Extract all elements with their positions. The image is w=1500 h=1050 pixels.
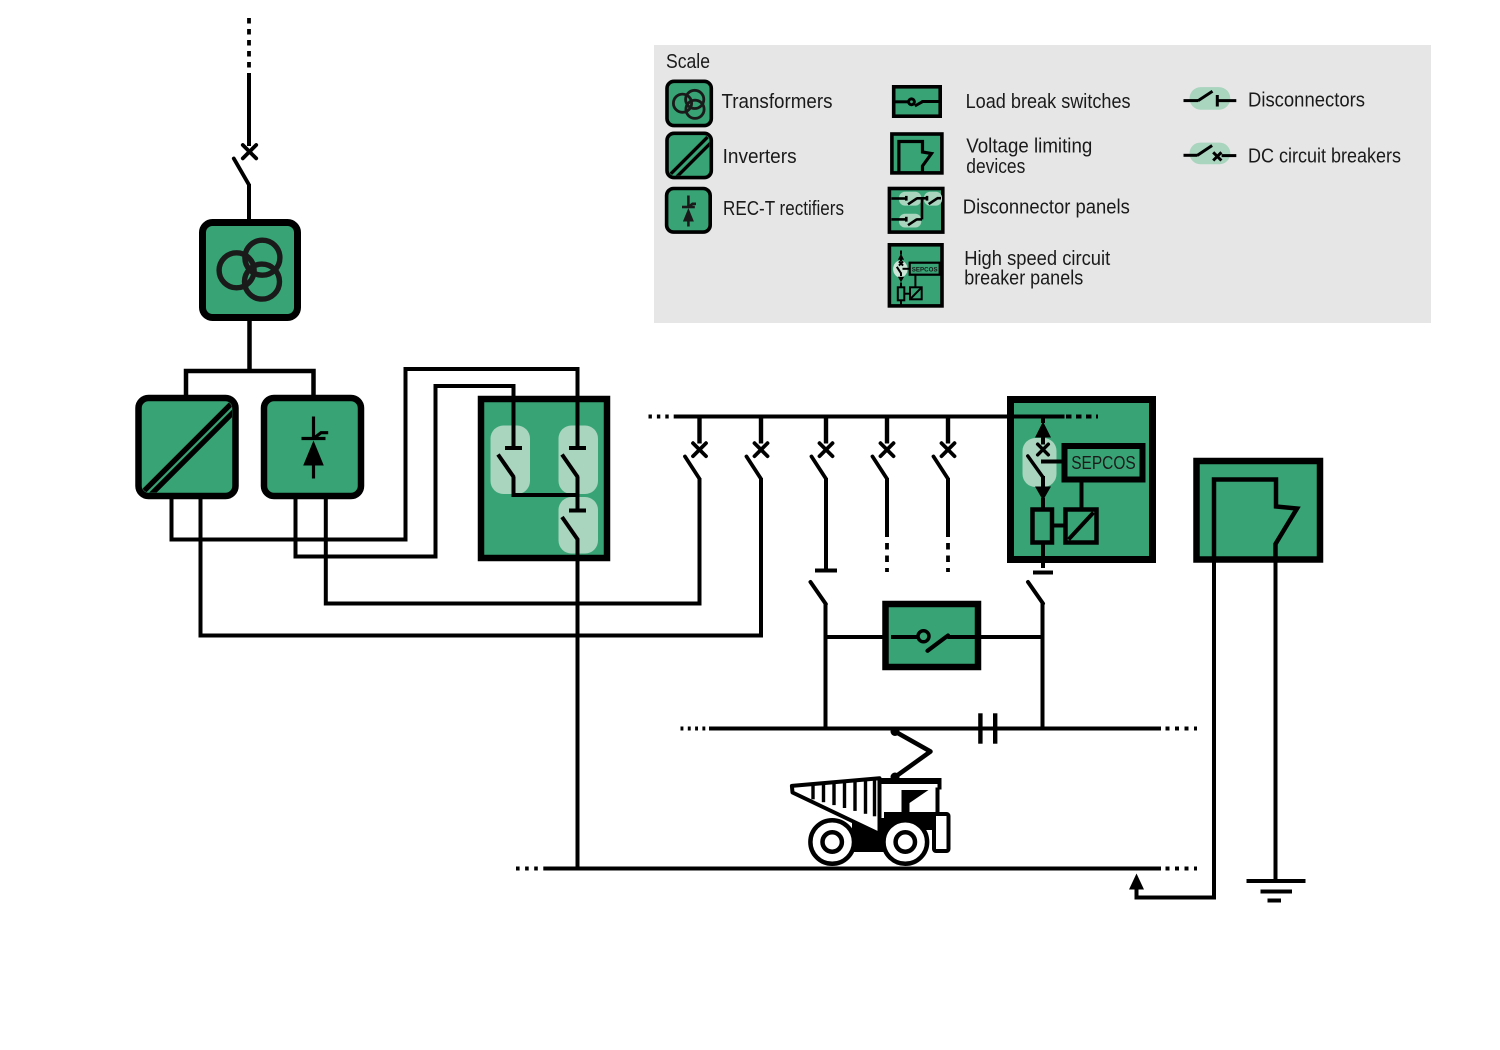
svg-text:Disconnector panels: Disconnector panels [963, 197, 1130, 219]
svg-text:SEPCOS: SEPCOS [1071, 452, 1136, 473]
svg-text:REC-T rectifiers: REC-T rectifiers [723, 198, 844, 220]
svg-text:Load break switches: Load break switches [966, 91, 1131, 113]
svg-text:breaker panels: breaker panels [964, 268, 1083, 290]
svg-text:Scale: Scale [666, 51, 710, 73]
svg-text:devices: devices [966, 156, 1025, 178]
svg-text:Disconnectors: Disconnectors [1248, 89, 1365, 111]
svg-text:Transformers: Transformers [722, 91, 833, 113]
svg-text:DC circuit breakers: DC circuit breakers [1248, 145, 1401, 167]
svg-text:Inverters: Inverters [723, 146, 797, 168]
svg-text:SEPCOS: SEPCOS [912, 266, 938, 273]
svg-text:Voltage limiting: Voltage limiting [966, 136, 1092, 158]
